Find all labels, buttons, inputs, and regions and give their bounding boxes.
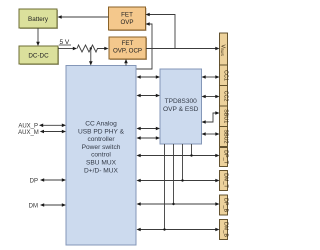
wire VBUS rail to connector: [146, 47, 220, 51]
connector pin SBU1: [220, 106, 229, 123]
wire controller to TPD8S300 (SBU path 1): [137, 127, 161, 131]
svg-text:controller: controller: [87, 136, 115, 143]
wire TPD8S300 to CC1 pin: [202, 75, 220, 79]
wire dc-dc 5V output: [58, 47, 77, 51]
wire 5V rail down to controller: [89, 49, 93, 66]
junction DM_B: [163, 228, 165, 230]
FET OVP box: [109, 7, 147, 31]
svg-text:CC1: CC1: [222, 70, 228, 81]
svg-text:DM_T: DM_T: [222, 173, 228, 188]
connector pin SBU2: [220, 127, 229, 144]
svg-text:DM_B: DM_B: [222, 222, 228, 237]
junction DP_T: [190, 154, 192, 156]
connector pin CC2: [220, 86, 229, 102]
svg-text:D+/D- MUX: D+/D- MUX: [84, 167, 118, 174]
wire AUX_M: [40, 130, 66, 134]
FET OVP, OCP box: [109, 37, 147, 60]
wire controller up into FET OVP, OCP: [124, 59, 128, 66]
svg-text:Battery: Battery: [28, 16, 49, 23]
svg-text:FET: FET: [121, 12, 133, 19]
resistor R1: [77, 45, 105, 52]
svg-text:control: control: [91, 152, 111, 159]
wire controller to TPD8S300 (CC path 1): [137, 75, 161, 79]
wire controller to DP_B pin: [137, 202, 220, 206]
wire VBUS rail tap to FET OVP: [146, 13, 176, 49]
connector pin DM_B: [220, 220, 229, 240]
svg-text:DP_B: DP_B: [222, 198, 228, 212]
wire TPD8S300 down to DP_T line: [191, 144, 193, 156]
wire TPD8S300 to SBU2 pin: [202, 132, 220, 136]
wire TPD8S300 down to DP_B line: [173, 144, 175, 204]
battery box: [19, 9, 58, 29]
svg-text:VBUS: VBUS: [220, 45, 226, 57]
wire controller to TPD8S300 (CC path 2): [137, 94, 161, 98]
svg-text:OVP, OCP: OVP, OCP: [113, 48, 142, 55]
USB PD controller block U1: [66, 66, 136, 246]
svg-text:DP: DP: [30, 178, 38, 184]
wire FET OVP to battery: [58, 15, 109, 19]
svg-text:DC-DC: DC-DC: [28, 53, 49, 60]
connector pin strip background: [220, 33, 228, 147]
wire DP: [40, 178, 66, 182]
connector pin CC1: [220, 65, 229, 81]
svg-text:CC Analog: CC Analog: [85, 121, 117, 128]
svg-text:USB PD PHY &: USB PD PHY &: [78, 128, 125, 135]
junction below resistor: [90, 47, 92, 49]
svg-text:FET: FET: [122, 40, 134, 47]
svg-text:CC2: CC2: [222, 91, 228, 102]
wire into FET OVP, OCP: [104, 47, 108, 51]
connector pin DP_T: [220, 148, 229, 167]
wire TPD8S300 to CC2 pin: [202, 95, 220, 99]
wire AUX_P: [39, 124, 66, 128]
wire controller to DP_T pin: [137, 154, 220, 158]
wire TPD8S300 down to DM_B line: [164, 144, 166, 230]
svg-text:SBU1: SBU1: [222, 109, 228, 123]
junction DM_T: [181, 179, 183, 181]
wire controller to TPD8S300 (SBU path 2): [137, 136, 161, 140]
dc-dc converter: [19, 46, 59, 65]
wire TPD8S300 to SBU1 pin: [202, 111, 220, 124]
connector pin VBUS: [220, 45, 226, 57]
connector pin DP_B: [220, 195, 229, 215]
wire controller to DM_B pin: [137, 228, 220, 232]
svg-text:Power switch: Power switch: [82, 144, 121, 151]
TPD8S300 protection IC U2: [160, 69, 202, 144]
svg-text:AUX_M: AUX_M: [18, 130, 39, 136]
svg-text:SBU MUX: SBU MUX: [86, 160, 117, 167]
svg-text:DM: DM: [29, 203, 38, 209]
node 5 V label: [59, 39, 71, 46]
wire controller to DM_T pin: [137, 179, 220, 183]
wire controller to FET OVP: [137, 22, 153, 69]
svg-text:OVP & ESD: OVP & ESD: [163, 106, 199, 113]
connector pin DM_T: [220, 171, 229, 191]
junction DP_B: [172, 203, 174, 205]
wire battery to dc-dc: [36, 28, 40, 46]
svg-text:DP_T: DP_T: [222, 150, 228, 164]
svg-text:OVP: OVP: [120, 19, 133, 26]
wire DM: [40, 203, 66, 207]
svg-text:SBU2: SBU2: [222, 129, 228, 143]
wire TPD8S300 down to DM_T line: [182, 144, 184, 181]
svg-text:AUX_P: AUX_P: [18, 124, 38, 130]
svg-text:TPD8S300: TPD8S300: [165, 98, 198, 105]
